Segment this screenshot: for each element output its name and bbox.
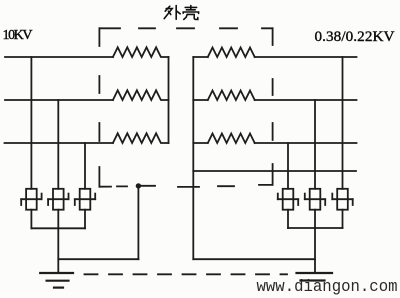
wire 0.38kV phase b line — [255, 99, 357, 101]
transformer primary winding C — [113, 133, 169, 143]
wire neutral-to-earth link — [193, 258, 315, 260]
wire secondary neutral vertical (star point) — [192, 57, 194, 259]
svg-text:www.diangon.com: www.diangon.com — [257, 277, 398, 296]
wire phase a drop to arrester FV4 — [342, 57, 344, 189]
enclosure dashed box top edge — [99, 27, 272, 29]
ground (right earth electrode) — [297, 273, 333, 281]
wire 10kV phase B bus — [5, 99, 113, 101]
ground (left earth electrode) — [40, 273, 73, 288]
enclosure dashed box left edge — [98, 28, 100, 186]
wire FV2 bottom lead — [57, 210, 59, 229]
transformer primary winding A — [113, 47, 169, 57]
surge arrester FV4 — [332, 189, 352, 210]
node enclosure junction dot — [136, 183, 141, 188]
svg-text:0.38/0.22KV: 0.38/0.22KV — [315, 28, 395, 45]
wire FV3 bottom lead — [84, 210, 86, 229]
wire primary star point vertical — [168, 57, 170, 143]
surge arrester FV1 — [21, 189, 41, 210]
wire arrester common bus (right) — [288, 227, 343, 229]
wire FV4 bottom lead — [342, 210, 344, 228]
wire phase c drop to arrester FV6 — [287, 143, 289, 189]
enclosure dashed box right edge — [272, 28, 274, 184]
transformer secondary winding c — [193, 142, 208, 144]
surge arrester FV2 — [48, 189, 68, 210]
transformer primary winding B — [113, 90, 169, 100]
wire FV1 bottom lead — [30, 210, 32, 229]
wire 10kV phase C bus — [5, 142, 113, 144]
wire phase C drop to arrester FV3 — [84, 143, 86, 189]
wire neutral N line — [193, 170, 356, 172]
wire phase A drop to arrester FV1 — [30, 57, 32, 189]
wire enclosure earthing link vertical — [137, 187, 139, 260]
wire earth dashed line — [85, 273, 288, 275]
enclosure dashed box bottom edge — [99, 185, 272, 187]
wire 0.38kV phase c line — [255, 142, 357, 144]
wire 10kV phase A bus — [5, 56, 113, 58]
wire 0.38kV phase a line — [255, 56, 357, 58]
wire phase B drop to arrester FV2 — [57, 100, 59, 189]
wire arrester common bus (left) — [31, 227, 85, 229]
surge arrester FV3 — [75, 189, 95, 210]
transformer secondary winding a — [193, 56, 208, 58]
wire FV6 bottom lead — [287, 210, 289, 228]
wire phase b drop to arrester FV5 — [314, 100, 316, 189]
transformer secondary winding b — [193, 99, 208, 101]
svg-text:10KV: 10KV — [3, 28, 33, 43]
wire right earth drop — [314, 228, 316, 273]
surge arrester FV6 — [278, 189, 298, 210]
surge arrester FV5 — [305, 189, 325, 210]
label 外壳 (enclosure) hand-drawn CJK glyphs — [164, 6, 198, 20]
wire enclosure earthing link horizontal — [58, 258, 138, 260]
wire FV5 bottom lead — [314, 210, 316, 228]
wire left earth drop — [57, 228, 59, 273]
